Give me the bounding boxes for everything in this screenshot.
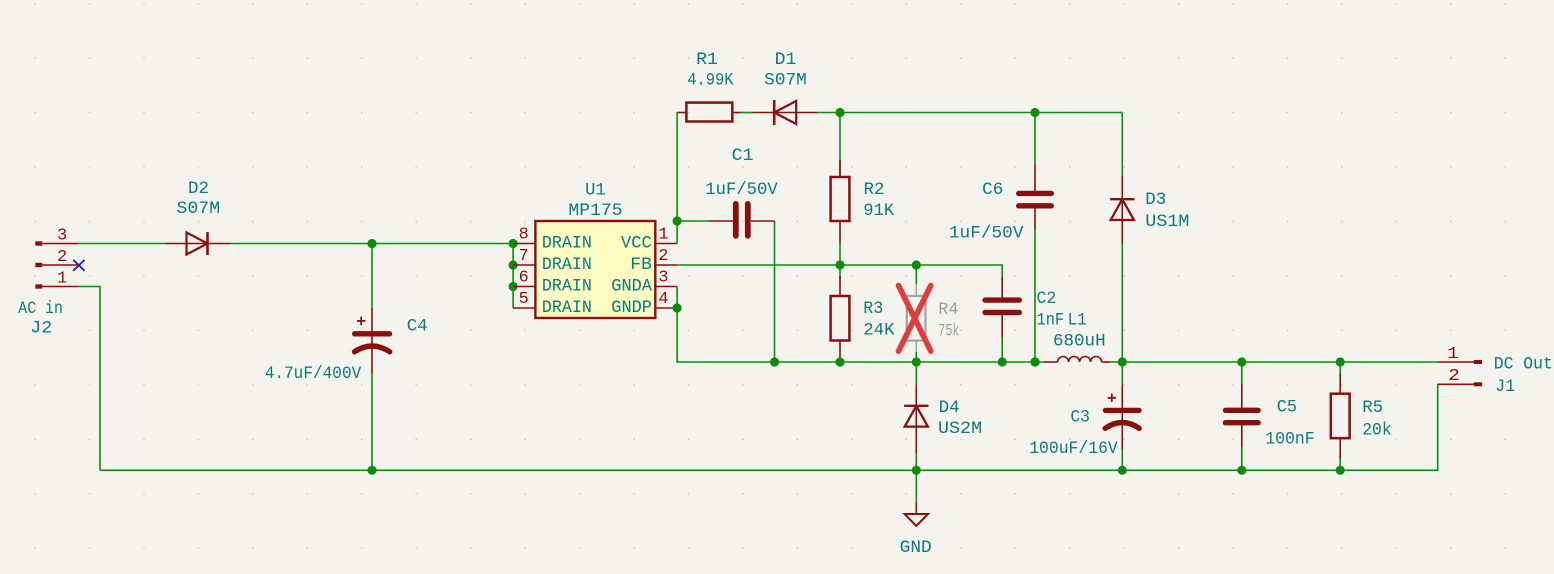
svg-text:2: 2 [658, 246, 668, 265]
svg-text:US1M: US1M [1145, 212, 1189, 232]
pin 6 of U1 (DRAIN) [513, 267, 592, 296]
svg-text:1uF/50V: 1uF/50V [949, 224, 1024, 244]
wire D1 to top node [817, 112, 840, 114]
svg-text:DRAIN: DRAIN [542, 234, 592, 254]
junction pin4 [673, 303, 682, 312]
wire FB net [677, 265, 1002, 278]
wire D3 to mid rail [1121, 244, 1123, 362]
wire FB to R3 [839, 265, 841, 278]
svg-text:MP175: MP175 [568, 201, 622, 221]
svg-text:J1: J1 [1495, 377, 1515, 397]
junction L1 right C3 [1118, 357, 1127, 366]
wire VCC node up to R1 [677, 113, 679, 222]
pin 1 of U1 (VCC) [621, 224, 677, 253]
diode D4 [904, 384, 928, 453]
resistor R1 [678, 103, 741, 122]
svg-text:24K: 24K [863, 320, 895, 340]
svg-text:D3: D3 [1145, 190, 1166, 210]
svg-text:C3: C3 [1070, 408, 1090, 428]
wire J2.1 down to bottom rail [78, 287, 100, 471]
junction C3 bottom [1118, 466, 1127, 475]
svg-text:C6: C6 [982, 180, 1003, 200]
svg-text:4: 4 [658, 289, 668, 308]
junction U1 pin7 [508, 260, 517, 269]
wire top rail down to D3 [1121, 113, 1123, 177]
svg-text:S07M: S07M [177, 199, 221, 219]
svg-text:U1: U1 [585, 180, 606, 200]
wire C6 to mid rail [1034, 230, 1036, 362]
svg-text:91K: 91K [863, 201, 894, 221]
wire FB to R4 [915, 265, 917, 285]
svg-text:R3: R3 [863, 299, 883, 319]
diode D2 [165, 232, 230, 255]
top rail wire [840, 112, 1122, 114]
junction C5 top [1237, 357, 1246, 366]
resistor R5 [1331, 374, 1350, 458]
capacitor C4 [355, 308, 390, 373]
junction FB R4 [912, 260, 921, 269]
svg-text:3: 3 [57, 226, 67, 245]
wire VCC node to C1 left [677, 220, 709, 222]
junction U1 pin8 [508, 239, 517, 248]
wire R2 to FB [839, 242, 841, 265]
junction R3 mid rail [835, 357, 844, 366]
diode D3 [1110, 176, 1134, 244]
pin 4 of U1 (GNDP) [611, 289, 677, 318]
svg-text:R2: R2 [864, 180, 885, 200]
resistor R2 [831, 113, 850, 244]
wire C2 to mid rail [1001, 337, 1003, 362]
pin 8 of U1 (DRAIN) [513, 224, 592, 253]
connector J2 [35, 241, 78, 288]
junction C6 mid rail [1030, 357, 1039, 366]
svg-text:C1: C1 [732, 146, 754, 166]
wire VCC pin1 to C1 node [676, 221, 678, 244]
svg-text:2: 2 [1448, 366, 1460, 385]
svg-text:GNDP: GNDP [611, 298, 652, 318]
junction R4 mid rail [912, 357, 921, 366]
svg-text:4.99K: 4.99K [687, 71, 734, 91]
svg-text:C2: C2 [1037, 289, 1057, 309]
svg-text:J2: J2 [30, 318, 52, 338]
svg-text:680uH: 680uH [1053, 331, 1106, 351]
bottom rail wire [100, 384, 1438, 470]
wire D2 to U1 bus (through C4 node) [231, 243, 514, 245]
svg-text:US2M: US2M [938, 419, 982, 439]
svg-text:1uF/50V: 1uF/50V [705, 180, 778, 200]
connector J1 [1438, 360, 1482, 386]
junction top rail C6 [1030, 108, 1039, 117]
svg-text:C5: C5 [1277, 397, 1297, 417]
wire R5 to bottom rail [1339, 458, 1341, 470]
svg-text:4.7uF/400V: 4.7uF/400V [265, 364, 362, 384]
wire mid rail to R5 [1339, 362, 1341, 376]
svg-text:GND: GND [900, 538, 932, 558]
svg-text:S07M: S07M [764, 71, 807, 91]
wire mid rail to D4 [915, 362, 917, 384]
svg-text:C4: C4 [407, 317, 428, 337]
wire C4 top lead [371, 244, 373, 309]
pin 2 of U1 (FB) [630, 246, 677, 275]
junction U1 pin6 [508, 282, 517, 291]
no-connect X on J2 pin 2 [73, 260, 84, 271]
svg-text:100uF/16V: 100uF/16V [1029, 439, 1118, 459]
DNP cross on R4 [899, 286, 931, 352]
wire U1 left pin bus [512, 244, 514, 309]
wire C1 right down to mid rail [774, 221, 776, 362]
svg-text:DC Out: DC Out [1494, 355, 1553, 375]
pin 5 of U1 (DRAIN) [513, 289, 592, 318]
svg-text:5: 5 [519, 289, 529, 308]
svg-text:DRAIN: DRAIN [542, 277, 592, 297]
wire R4 to mid rail [915, 352, 917, 362]
wire D4 to bottom rail [915, 453, 917, 470]
svg-text:L1: L1 [1068, 311, 1087, 331]
junction C2 mid rail [998, 357, 1007, 366]
diode D1 [753, 100, 818, 125]
junction C4 top [367, 239, 376, 248]
svg-text:6: 6 [519, 267, 529, 286]
junction C4 bottom [367, 466, 376, 475]
ground [905, 503, 929, 526]
svg-text:DRAIN: DRAIN [542, 298, 592, 318]
svg-text:R5: R5 [1362, 398, 1383, 418]
IC U1 MP175 [535, 221, 655, 318]
svg-text:100nF: 100nF [1265, 429, 1314, 449]
svg-text:GNDA: GNDA [611, 277, 652, 297]
capacitor C5 [1226, 384, 1259, 447]
svg-text:75k: 75k [938, 322, 959, 342]
svg-text:1: 1 [57, 269, 67, 288]
svg-text:1nF: 1nF [1037, 311, 1065, 331]
junction C1 mid rail [770, 357, 779, 366]
svg-text:20k: 20k [1362, 420, 1392, 440]
wire R1 to D1 [741, 112, 753, 114]
junction FB R2/R3 [835, 260, 844, 269]
svg-text:D4: D4 [939, 398, 960, 418]
wire to GND [915, 470, 917, 503]
wire C5 to bottom rail [1241, 447, 1243, 470]
svg-text:VCC: VCC [621, 234, 652, 254]
wire GNDA/GNDP down to mid rail [676, 287, 678, 309]
wire J2.3 to D2 [78, 243, 165, 245]
svg-text:3: 3 [658, 267, 668, 286]
junction D4 bottom [912, 466, 921, 475]
junction VCC node [673, 216, 682, 225]
pin 3 of U1 (GNDA) [611, 267, 677, 296]
resistor R3 [831, 276, 850, 362]
junction C5 bottom [1237, 466, 1246, 475]
svg-text:AC in: AC in [18, 299, 63, 319]
svg-text:R1: R1 [696, 50, 718, 70]
capacitor C1 [709, 204, 775, 236]
wire mid rail to C5 [1241, 362, 1243, 385]
svg-text:R4: R4 [938, 300, 958, 320]
svg-text:8: 8 [519, 224, 529, 243]
junction R5 bottom [1336, 466, 1345, 475]
svg-text:FB: FB [630, 255, 652, 275]
capacitor C6 [1019, 113, 1052, 230]
wire mid rail to C3 [1121, 362, 1123, 384]
svg-text:1: 1 [1447, 344, 1459, 363]
capacitor C3 [1105, 384, 1139, 449]
junction top node R2 [835, 108, 844, 117]
svg-text:D2: D2 [188, 179, 209, 199]
wire C4 bottom lead [371, 373, 373, 470]
svg-text:D1: D1 [775, 50, 797, 70]
svg-text:DRAIN: DRAIN [542, 255, 592, 275]
svg-text:2: 2 [57, 247, 67, 266]
svg-text:7: 7 [519, 246, 529, 265]
capacitor C2 [985, 277, 1019, 338]
resistor R4 (DNP, grey) [907, 284, 926, 353]
pin 7 of U1 (DRAIN) [513, 246, 592, 275]
wire pin4 to mid rail [677, 308, 1044, 362]
junction L1 left [1030, 357, 1039, 366]
wire C3 to bottom rail [1121, 449, 1123, 470]
svg-text:1: 1 [658, 224, 668, 243]
inductor L1 [1044, 357, 1111, 363]
junction R5 top [1336, 357, 1345, 366]
wire L1 to J1 pin1 [1111, 361, 1438, 363]
